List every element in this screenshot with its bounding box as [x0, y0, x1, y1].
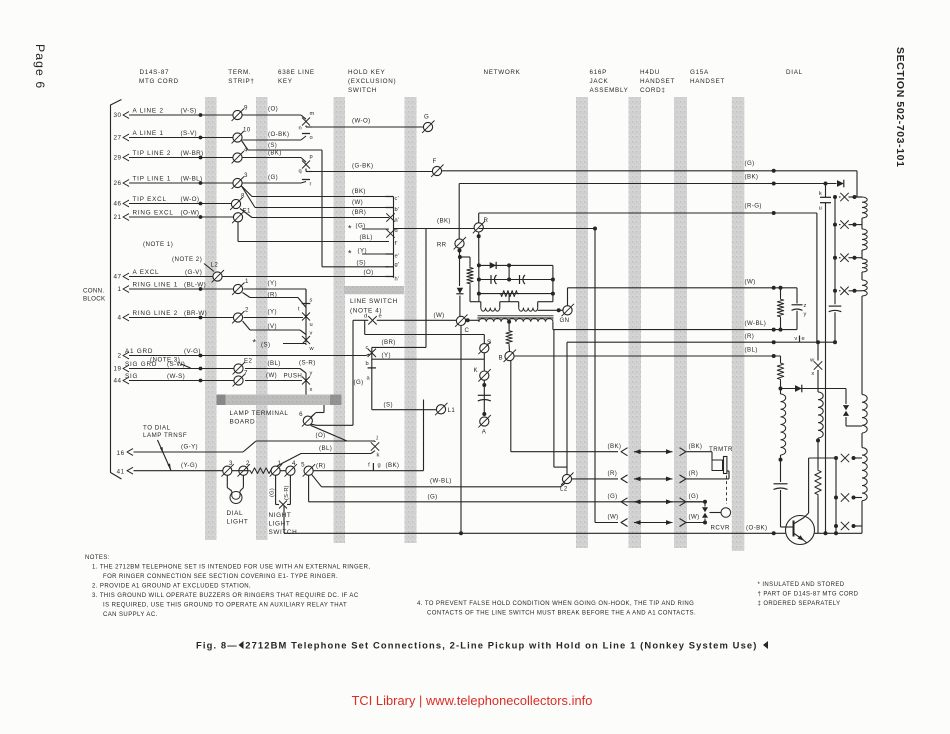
svg-text:t: t	[298, 307, 300, 313]
dial light lamp	[226, 475, 228, 487]
svg-text:y: y	[310, 371, 313, 377]
svg-text:46: 46	[113, 201, 121, 208]
wire (BR) from terminal 8 to hold key a'	[240, 209, 252, 218]
svg-text:a': a'	[395, 218, 400, 224]
contact v/e tick	[799, 336, 801, 343]
svg-text:(W-O): (W-O)	[352, 118, 371, 125]
svg-text:A LINE 2: A LINE 2	[133, 108, 164, 115]
svg-text:(G): (G)	[354, 379, 364, 386]
svg-text:v: v	[794, 336, 797, 342]
svg-text:RCVR: RCVR	[711, 525, 730, 532]
svg-text:F: F	[433, 158, 437, 165]
dial pulse rail	[834, 197, 836, 304]
svg-text:E2: E2	[244, 358, 252, 365]
svg-text:(Y-G): (Y-G)	[181, 462, 197, 469]
svg-text:NIGHT: NIGHT	[269, 512, 292, 519]
svg-text:(R): (R)	[608, 470, 618, 477]
svg-text:CORD‡: CORD‡	[640, 87, 666, 94]
svg-text:G15A: G15A	[690, 69, 709, 76]
svg-text:RING LINE 2: RING LINE 2	[133, 310, 179, 317]
svg-text:(NOTE 1): (NOTE 1)	[143, 241, 173, 248]
wire (G) row 26 to contact r	[243, 182, 302, 184]
wire (Y) stack to S/K column	[372, 358, 485, 360]
svg-text:4. TO PREVENT FALSE HOLD CONDI: 4. TO PREVENT FALSE HOLD CONDITION WHEN …	[417, 601, 694, 607]
svg-text:x: x	[811, 371, 814, 377]
svg-text:CONTACTS OF THE LINE SWITCH MU: CONTACTS OF THE LINE SWITCH MUST BREAK B…	[427, 611, 696, 617]
svg-text:(R): (R)	[316, 463, 326, 470]
svg-text:K: K	[474, 367, 479, 374]
svg-text:r: r	[310, 182, 312, 188]
svg-text:k: k	[377, 453, 380, 459]
wire (S) vertical to g'	[321, 150, 323, 267]
diagonal terminal 3 to (W) wire	[242, 186, 256, 208]
svg-text:(BL-W): (BL-W)	[184, 282, 206, 289]
svg-text:616P: 616P	[590, 69, 608, 76]
svg-text:44: 44	[113, 378, 121, 385]
wire (R) from terminal 1	[243, 293, 251, 298]
capacitor row	[479, 279, 553, 281]
svg-text:5: 5	[301, 462, 305, 469]
svg-text:KEY: KEY	[278, 78, 293, 85]
svg-text:2: 2	[117, 353, 121, 360]
svg-text:(G): (G)	[268, 174, 278, 181]
contact m/n X	[302, 118, 310, 126]
C vertical to O-BK row	[460, 326, 462, 534]
wire (W-BL) dial row	[553, 329, 797, 331]
dial varistor branch	[845, 389, 847, 405]
svg-text:L2: L2	[211, 262, 219, 269]
terminal RR	[455, 239, 464, 248]
svg-text:MTG CORD: MTG CORD	[139, 78, 179, 85]
svg-text:TIP EXCL: TIP EXCL	[133, 196, 167, 203]
svg-text:LAMP TRNSF: LAMP TRNSF	[143, 432, 187, 439]
contact c' bar	[386, 196, 394, 198]
receiver RCVR	[687, 501, 706, 503]
svg-text:(V-G): (V-G)	[184, 348, 201, 355]
svg-text:LAMP TERMINAL: LAMP TERMINAL	[230, 410, 289, 417]
wire (W) dial row	[568, 287, 798, 289]
svg-text:CONN.: CONN.	[83, 288, 104, 295]
H4DU cord band 1	[629, 97, 642, 548]
dial lower rail	[835, 458, 837, 533]
contact a' X	[386, 213, 394, 221]
svg-text:(G-Y): (G-Y)	[181, 444, 198, 451]
dial series capacitor	[780, 461, 782, 482]
svg-text:TRMTR: TRMTR	[709, 446, 733, 453]
svg-text:v: v	[310, 331, 313, 337]
lamp resistor	[232, 470, 248, 472]
line switch band	[344, 286, 404, 294]
svg-text:d: d	[364, 314, 367, 320]
link W row to S row	[364, 320, 366, 334]
wire (W-O) hold key to G	[312, 126, 424, 128]
riser f/g wire up	[423, 400, 425, 471]
svg-text:S: S	[487, 339, 492, 346]
network inner left rail	[478, 232, 480, 237]
transformer core	[478, 315, 554, 317]
contact b' bar	[386, 207, 394, 209]
resistor row	[479, 293, 553, 295]
svg-text:(W-BL): (W-BL)	[430, 478, 452, 485]
svg-text:(S-R): (S-R)	[284, 485, 290, 500]
svg-text:TCI Library | www.telephonecol: TCI Library | www.telephonecollectors.in…	[352, 693, 593, 708]
wire BR row to vertical riser	[372, 346, 426, 348]
svg-text:s: s	[310, 298, 313, 304]
svg-text:SECTION 502-703-101: SECTION 502-703-101	[894, 47, 906, 168]
terminal 10	[233, 133, 242, 142]
svg-text:SWITCH: SWITCH	[348, 87, 377, 94]
wire R-G from R up and right to dial	[478, 213, 480, 223]
svg-text:g: g	[378, 463, 381, 469]
wire A1 GRD diagonal to c X	[366, 354, 370, 356]
wire (V) from terminal 2	[243, 321, 251, 330]
transistor	[786, 516, 815, 545]
riser R-G row down to R dial row	[816, 213, 818, 342]
svg-text:(O-W): (O-W)	[181, 210, 200, 217]
wire R row from L2	[572, 478, 618, 480]
terminal 3	[233, 178, 242, 187]
svg-text:27: 27	[113, 135, 121, 142]
svg-text:(W): (W)	[745, 279, 756, 286]
svg-text:(W-BL): (W-BL)	[181, 176, 203, 183]
svg-text:(BK): (BK)	[745, 174, 759, 181]
svg-text:(NOTE 3): (NOTE 3)	[150, 357, 180, 364]
616P jack band	[576, 97, 588, 548]
contact j/k X	[374, 441, 376, 442]
svg-text:SWITCH: SWITCH	[269, 529, 298, 536]
svg-text:A LINE 1: A LINE 1	[133, 130, 164, 137]
svg-text:*: *	[348, 249, 352, 259]
wire (BL) dial row from B	[514, 355, 780, 357]
transformer winding 1	[479, 301, 481, 303]
dial BL resistor column	[780, 356, 782, 362]
svg-text:PUSH: PUSH	[284, 373, 303, 380]
dial O-BK row right segment	[814, 532, 838, 534]
svg-text:(W): (W)	[689, 514, 700, 521]
svg-text:IS REQUIRED, USE THIS GROUND T: IS REQUIRED, USE THIS GROUND TO OPERATE …	[103, 603, 347, 609]
svg-text:b': b'	[395, 207, 400, 213]
svg-text:(G): (G)	[608, 493, 618, 500]
contact f/g tick	[372, 463, 374, 471]
dial BK diode	[837, 180, 844, 187]
svg-text:SIG: SIG	[125, 373, 138, 380]
svg-text:A: A	[482, 429, 487, 436]
svg-text:(BK): (BK)	[268, 151, 282, 157]
dial corner to coil top	[856, 184, 858, 198]
wire O-BK long row	[284, 532, 786, 534]
hold key band 1	[334, 97, 346, 543]
conn block bracket	[111, 100, 122, 480]
RR column with varistor diode	[458, 249, 462, 253]
wire (BK) row 29 to contact p	[243, 157, 302, 159]
svg-text:e: e	[802, 336, 805, 342]
svg-text:4: 4	[292, 460, 296, 467]
svg-text:* INSULATED AND STORED: * INSULATED AND STORED	[758, 582, 845, 588]
night light to O-BK row	[283, 506, 285, 533]
svg-text:u: u	[819, 206, 822, 212]
svg-text:4: 4	[117, 315, 121, 322]
svg-text:(EXCLUSION): (EXCLUSION)	[348, 78, 396, 85]
svg-text:(R-G): (R-G)	[745, 203, 762, 210]
svg-text:p: p	[310, 154, 313, 160]
svg-text:HANDSET: HANDSET	[640, 78, 675, 85]
terminal 2	[233, 313, 242, 322]
vertical B to BK cord row	[510, 361, 512, 452]
wire (Y) from terminal 2 to X	[244, 317, 304, 319]
G15A handset band	[732, 97, 745, 551]
svg-text:(BL): (BL)	[268, 360, 281, 367]
dial G row corner	[856, 171, 858, 184]
contact k/u	[825, 184, 827, 198]
wire 6 up into board	[311, 413, 316, 418]
cord row (BK) chevrons and arrows	[621, 448, 628, 456]
svg-text:(G): (G)	[745, 160, 755, 167]
vertical hold key R row to W cord row	[593, 227, 597, 231]
svg-text:x: x	[310, 387, 313, 393]
contact d'/f' X	[386, 229, 394, 237]
terminal 6	[303, 416, 312, 425]
svg-text:w: w	[309, 346, 315, 352]
ringer capacitor column	[483, 380, 485, 414]
svg-text:LIGHT: LIGHT	[269, 521, 291, 528]
contact w/x	[817, 342, 819, 360]
svg-text:(G): (G)	[270, 488, 276, 497]
svg-text:g': g'	[395, 262, 400, 268]
wire GN up to W dial row	[567, 288, 569, 306]
lamp terminal 5	[304, 466, 313, 475]
terminal L1	[436, 405, 445, 414]
wire (O) row 47 to h'	[223, 276, 390, 278]
svg-text:† PART OF D14S-87 MTG CORD: † PART OF D14S-87 MTG CORD	[758, 592, 859, 598]
terminal F	[432, 166, 441, 175]
svg-text:y: y	[804, 312, 807, 318]
dial pulse contacts	[833, 195, 837, 199]
wire (O-BK) row 27 to contact o	[243, 139, 302, 141]
dashed link TRMTR to RCVR	[726, 476, 728, 505]
svg-text:(O-BK): (O-BK)	[746, 525, 768, 532]
svg-text:2: 2	[245, 307, 249, 314]
svg-text:(W-S): (W-S)	[167, 373, 185, 380]
svg-text:z: z	[804, 303, 807, 309]
svg-text:(S): (S)	[384, 402, 393, 409]
transformer bottom winding	[466, 319, 479, 321]
svg-text:(Y): (Y)	[382, 352, 391, 359]
hold key contact rail	[393, 197, 395, 278]
svg-text:TO DIAL: TO DIAL	[143, 425, 171, 432]
svg-text:(BK): (BK)	[437, 218, 451, 225]
svg-text:2. PROVIDE A1 GROUND AT EXCLUD: 2. PROVIDE A1 GROUND AT EXCLUDED STATION…	[92, 584, 251, 590]
svg-text:c': c'	[395, 196, 399, 202]
svg-text:STRIP†: STRIP†	[228, 78, 254, 85]
wire 5 to f/g and riser	[313, 470, 423, 472]
svg-text:R: R	[484, 217, 489, 224]
svg-text:(W-O): (W-O)	[181, 196, 200, 203]
svg-text:(BK): (BK)	[689, 443, 703, 450]
svg-text:(BR-W): (BR-W)	[184, 310, 207, 317]
lamp terminal 3	[223, 466, 232, 475]
lamp terminal 4	[286, 466, 295, 475]
svg-text:1: 1	[117, 286, 121, 293]
wire (W) PUSH from terminal 7	[245, 380, 302, 382]
terminal K	[480, 371, 489, 380]
svg-text:(S-V): (S-V)	[181, 130, 197, 137]
wire (BK) to hold key c'	[252, 196, 389, 198]
svg-text:NETWORK: NETWORK	[484, 69, 521, 76]
svg-text:16: 16	[117, 450, 125, 457]
contact o bar	[302, 133, 310, 135]
terminal E1	[233, 213, 242, 222]
svg-text:j: j	[376, 435, 379, 441]
svg-text:(BR): (BR)	[382, 339, 396, 346]
svg-text:(V-S): (V-S)	[181, 108, 197, 115]
svg-text:BLOCK: BLOCK	[83, 296, 106, 303]
terminal 8	[231, 199, 240, 208]
svg-text:3. THIS GROUND WILL OPERATE BU: 3. THIS GROUND WILL OPERATE BUZZERS OR R…	[92, 593, 359, 599]
terminal C	[456, 316, 465, 325]
vertical R dial row to L2	[566, 342, 568, 474]
wire (O) row 30 to contact m	[243, 114, 302, 116]
wire BK dial row	[459, 183, 836, 185]
svg-text:638E LINE: 638E LINE	[278, 69, 315, 76]
dial BL coil	[781, 394, 786, 455]
svg-text:(S): (S)	[261, 342, 270, 349]
svg-text:DIAL: DIAL	[227, 510, 244, 517]
svg-text:‡ ORDERED SEPARATELY: ‡ ORDERED SEPARATELY	[758, 601, 841, 607]
diode row	[479, 264, 553, 266]
svg-text:TIP LINE 2: TIP LINE 2	[133, 150, 172, 157]
svg-text:(O): (O)	[316, 432, 326, 439]
svg-text:(G): (G)	[428, 494, 438, 501]
svg-text:(V): (V)	[268, 323, 277, 330]
wire E1 down to hold key BL row	[237, 222, 239, 242]
svg-text:6: 6	[299, 411, 303, 418]
wire (G) F to dial corner	[442, 170, 858, 172]
svg-text:RR: RR	[437, 242, 447, 249]
terminal S	[480, 344, 489, 353]
svg-text:D14S-87: D14S-87	[140, 69, 170, 76]
svg-text:BOARD: BOARD	[230, 419, 256, 426]
terminal A	[480, 417, 489, 426]
network right rail	[552, 265, 554, 301]
svg-text:(R): (R)	[689, 470, 699, 477]
svg-text:B: B	[499, 355, 504, 362]
svg-text:(R): (R)	[745, 333, 755, 340]
svg-text:(S): (S)	[357, 260, 366, 267]
638E line key band	[256, 97, 268, 540]
svg-text:9: 9	[244, 105, 248, 112]
contact p/q X	[302, 161, 310, 169]
svg-text:HOLD KEY: HOLD KEY	[348, 69, 386, 76]
svg-text:(O): (O)	[268, 106, 278, 113]
wire (W) line switch row to C	[353, 319, 368, 321]
svg-text:DIAL: DIAL	[786, 69, 803, 76]
dial rail capacitor	[829, 305, 842, 307]
svg-text:h': h'	[395, 277, 400, 283]
svg-text:(BK): (BK)	[608, 443, 622, 450]
svg-text:47: 47	[113, 274, 121, 281]
svg-text:TIP LINE 1: TIP LINE 1	[133, 176, 172, 183]
svg-text:Page 6: Page 6	[33, 44, 47, 89]
wire (G) vertical d/e to lamp board 6	[352, 320, 354, 425]
svg-text:10: 10	[243, 127, 251, 134]
svg-text:(Y): (Y)	[268, 309, 277, 316]
center tap resistor to B	[508, 322, 510, 330]
svg-text:JACK: JACK	[590, 78, 609, 85]
svg-text:(O): (O)	[364, 269, 374, 276]
svg-text:*: *	[253, 338, 257, 348]
dial diode branch	[781, 388, 847, 390]
dial z-y resistor capacitor	[780, 288, 782, 298]
svg-text:41: 41	[117, 469, 125, 476]
svg-text:(BR): (BR)	[352, 209, 366, 216]
svg-text:(G-V): (G-V)	[185, 269, 202, 276]
dial lower pulse contacts	[834, 456, 838, 460]
svg-text:2: 2	[246, 460, 250, 467]
link diode row to cap row	[508, 265, 510, 279]
transistor collector riser	[804, 513, 809, 518]
terminal 9	[233, 110, 242, 119]
H4DU cord band 2	[674, 97, 687, 548]
svg-text:3: 3	[229, 460, 233, 467]
dial resistor below coil 2	[817, 441, 819, 469]
svg-text:m: m	[310, 111, 315, 117]
line key contact stack s-w	[305, 289, 307, 304]
svg-text:29: 29	[113, 155, 121, 162]
svg-text:(W): (W)	[352, 199, 363, 206]
terminal 1	[233, 284, 242, 293]
svg-text:21: 21	[113, 214, 121, 221]
dial coil column upper	[862, 197, 867, 218]
caption change markers	[239, 641, 244, 649]
wire (Y) from terminal 1	[244, 288, 307, 290]
svg-text:(W): (W)	[434, 312, 445, 319]
svg-text:ASSEMBLY: ASSEMBLY	[590, 87, 629, 94]
svg-text:NOTES:: NOTES:	[85, 555, 110, 561]
svg-text:(BL): (BL)	[360, 234, 373, 241]
svg-text:f: f	[368, 463, 370, 469]
svg-text:(R): (R)	[268, 292, 278, 299]
svg-text:(BL): (BL)	[319, 445, 332, 452]
svg-text:c: c	[366, 345, 369, 351]
wire (BL) terminal 1 to k	[275, 465, 277, 467]
transformer winding 2	[509, 301, 519, 303]
svg-text:HANDSET: HANDSET	[690, 78, 725, 85]
pointer to lamp rows	[158, 440, 172, 471]
svg-text:q: q	[299, 169, 302, 175]
lamp terminal board band	[217, 395, 342, 406]
vertical network to L2 rail	[553, 330, 555, 468]
wire (W-BL) row to L2	[322, 486, 561, 488]
svg-text:(W): (W)	[266, 372, 277, 379]
dial coil 2	[818, 392, 823, 438]
svg-text:A1 GRD: A1 GRD	[125, 348, 153, 355]
wire 6 to line switch G vertical	[311, 424, 317, 425]
svg-text:e': e'	[395, 254, 400, 260]
cord row (G) chevrons and arrows	[621, 498, 628, 506]
svg-text:n: n	[299, 126, 302, 132]
svg-text:8: 8	[241, 193, 245, 200]
svg-text:LINE SWITCH: LINE SWITCH	[350, 298, 398, 305]
night light switch	[275, 475, 277, 500]
terminal R	[458, 184, 460, 239]
svg-text:(S): (S)	[268, 143, 277, 149]
svg-text:(S-R): (S-R)	[299, 360, 316, 367]
svg-text:L1: L1	[448, 407, 456, 414]
svg-text:TERM.: TERM.	[228, 69, 251, 76]
svg-text:GN: GN	[560, 317, 570, 324]
cord row (W) chevrons and arrows	[621, 519, 628, 527]
hold key band 2	[405, 97, 417, 543]
